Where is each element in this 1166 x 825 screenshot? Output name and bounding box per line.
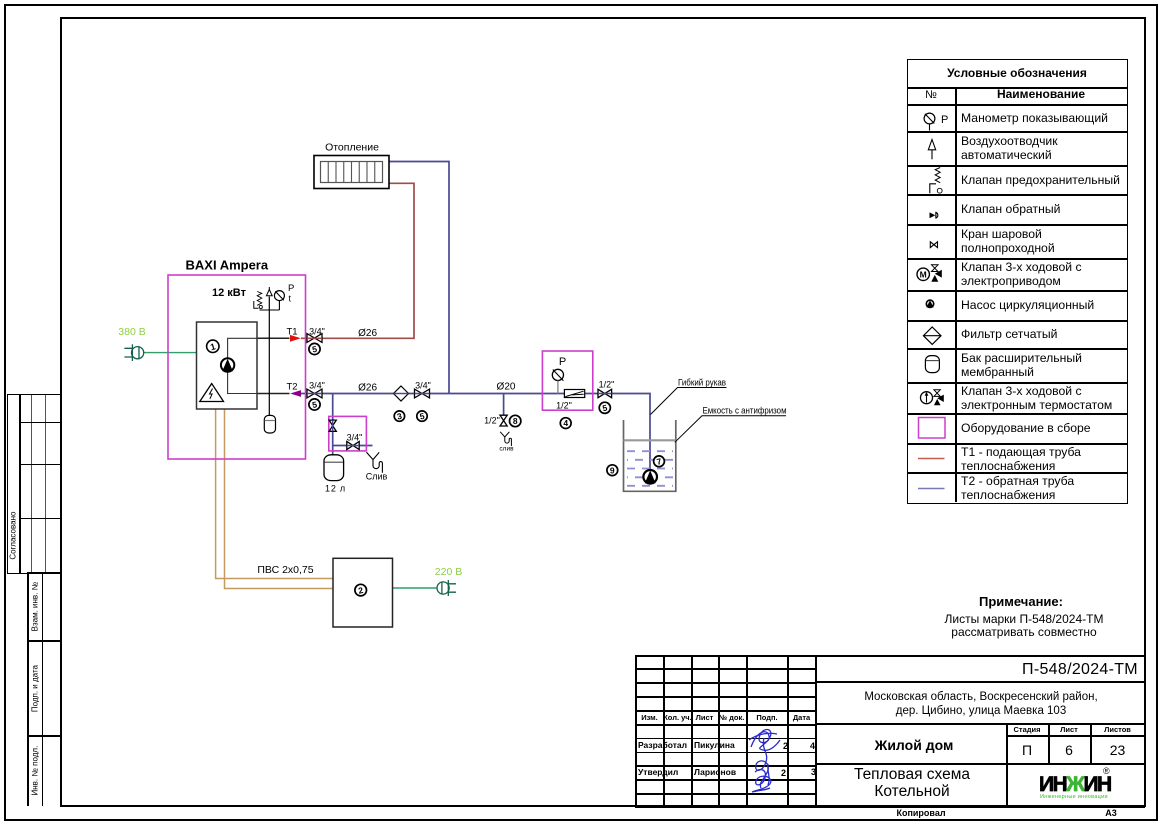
svg-text:1/2": 1/2" (556, 401, 572, 411)
svg-text:М: М (920, 270, 927, 280)
svg-text:9: 9 (610, 465, 615, 475)
svg-text:T1: T1 (286, 326, 297, 337)
svg-text:Слив: Слив (366, 472, 388, 482)
svg-text:BAXI Ampera: BAXI Ampera (186, 258, 269, 273)
svg-text:ПВС 2х0,75: ПВС 2х0,75 (257, 564, 313, 576)
svg-text:Ø26: Ø26 (358, 328, 377, 339)
svg-text:12 л: 12 л (325, 484, 346, 494)
svg-text:Емкость с антифризом: Емкость с антифризом (703, 406, 787, 417)
svg-text:1/2": 1/2" (484, 416, 500, 426)
svg-text:3/4": 3/4" (415, 380, 431, 390)
svg-text:220 В: 220 В (435, 566, 462, 578)
svg-text:T2: T2 (286, 381, 297, 392)
svg-text:380 В: 380 В (118, 326, 145, 338)
svg-text:4: 4 (563, 418, 568, 428)
svg-text:P: P (288, 283, 294, 294)
svg-text:Ø26: Ø26 (358, 382, 377, 393)
svg-text:Ø20: Ø20 (497, 381, 516, 392)
svg-text:Гибкий рукав: Гибкий рукав (678, 377, 726, 388)
svg-text:12 кВт: 12 кВт (212, 287, 247, 299)
svg-text:P: P (941, 114, 948, 126)
svg-text:слив: слив (499, 446, 514, 453)
svg-text:1/2": 1/2" (599, 379, 615, 389)
svg-text:8: 8 (513, 416, 518, 426)
svg-text:t: t (289, 294, 292, 304)
svg-text:P: P (559, 356, 566, 368)
svg-text:3/4": 3/4" (309, 380, 325, 390)
svg-text:Отопление: Отопление (325, 142, 379, 154)
svg-text:3/4": 3/4" (309, 326, 325, 336)
svg-text:3/4": 3/4" (347, 432, 363, 442)
